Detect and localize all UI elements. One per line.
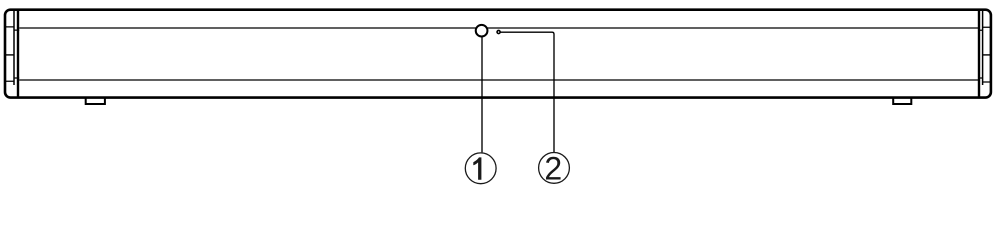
right end cap mid tick	[983, 54, 991, 56]
right foot	[893, 98, 911, 104]
lower groove line	[6, 78, 990, 82]
callout circle 1	[465, 153, 496, 184]
status LED dot (feature 2)	[497, 30, 500, 33]
right end cap edge line	[982, 11, 984, 85]
device body outline	[5, 10, 991, 98]
left end cap mid tick	[5, 54, 14, 56]
camera lens circle (feature 1)	[476, 25, 488, 37]
left end cap seam	[17, 10, 19, 97]
callout circle 2	[539, 153, 570, 184]
left end cap edge line	[13, 11, 15, 85]
svg-text:2: 2	[544, 151, 562, 187]
left foot	[86, 98, 105, 104]
leader line 2	[500, 32, 554, 152]
upper groove line	[6, 27, 990, 30]
callout digit 1	[473, 157, 481, 179]
right end cap seam	[978, 10, 980, 97]
leader line 1	[481, 37, 483, 153]
